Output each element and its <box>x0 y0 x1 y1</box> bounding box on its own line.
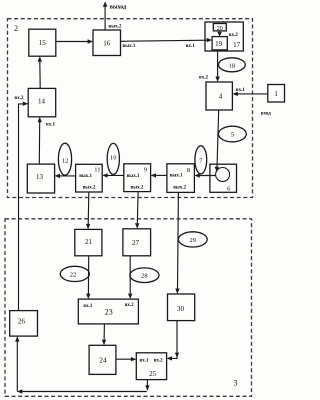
svg-text:26: 26 <box>18 318 26 326</box>
dashed box 3 <box>5 219 252 396</box>
svg-text:вых.2: вых.2 <box>83 186 96 191</box>
svg-text:вх.2: вх.2 <box>15 96 24 101</box>
svg-text:13: 13 <box>36 173 44 181</box>
wire 11 out2 to 21 <box>86 192 90 229</box>
block 16 <box>93 30 121 56</box>
svg-text:вх.2: вх.2 <box>154 358 163 363</box>
ellipse 5 <box>219 126 247 142</box>
wire 25 down to bottom bus <box>145 380 149 391</box>
block 25 <box>136 353 166 380</box>
svg-text:25: 25 <box>149 370 157 378</box>
block 21 <box>75 229 102 255</box>
svg-text:12: 12 <box>62 158 69 165</box>
wire 30 to 25 <box>167 321 180 361</box>
svg-text:2: 2 <box>14 24 18 33</box>
block 26 <box>10 311 38 337</box>
svg-text:21: 21 <box>85 238 93 246</box>
wire 8 out2 to 30 through ellipse 29 <box>175 192 179 294</box>
wire 27 to 23 through ellipse 28 <box>128 256 132 299</box>
wire 1 to 4 <box>232 88 267 96</box>
svg-text:4: 4 <box>219 92 223 100</box>
svg-text:18: 18 <box>229 62 236 69</box>
wire bottom bus to 26 <box>15 336 147 394</box>
svg-text:3: 3 <box>234 379 238 388</box>
wire 19 to 4 through ellipse 18 <box>199 50 220 82</box>
svg-text:вх.2: вх.2 <box>125 303 134 308</box>
svg-text:вх.1: вх.1 <box>46 123 55 128</box>
svg-text:вх.2: вх.2 <box>199 75 208 80</box>
wire 9 out2 to 27 <box>135 192 139 229</box>
svg-text:5: 5 <box>231 132 234 139</box>
svg-text:выход: выход <box>110 4 127 10</box>
block 17 <box>205 22 243 51</box>
svg-text:14: 14 <box>38 97 46 105</box>
svg-text:вых.2: вых.2 <box>131 186 144 191</box>
svg-text:8: 8 <box>187 167 190 174</box>
svg-text:30: 30 <box>177 305 185 313</box>
block 1 <box>268 85 285 103</box>
wire 16 to 19 <box>121 38 213 49</box>
block 14 <box>28 88 56 116</box>
wire 9 to 11 <box>102 173 124 177</box>
wire output from 16 up <box>103 1 126 30</box>
wire 23 to 24 <box>102 324 106 345</box>
ellipse 18 <box>219 58 246 72</box>
wire 13 to 14 <box>38 117 56 164</box>
svg-text:вых.1: вых.1 <box>123 44 136 49</box>
block 30 <box>168 294 195 321</box>
block 15 <box>29 29 56 56</box>
svg-text:1: 1 <box>274 90 278 98</box>
svg-text:вх.1: вх.1 <box>83 304 92 309</box>
wire 24 to 25 <box>116 357 136 361</box>
block 13 <box>27 164 54 193</box>
svg-text:вх.1: вх.1 <box>186 44 195 49</box>
wire 14 to 15 <box>38 56 42 88</box>
svg-text:22: 22 <box>70 271 77 278</box>
ellipse 7 <box>195 146 207 174</box>
wire 4 to 6 through ellipse 5 <box>215 110 219 172</box>
wire 8 to 9 <box>151 173 167 177</box>
ellipse 10 <box>107 143 119 174</box>
svg-text:17: 17 <box>233 41 241 49</box>
svg-text:вх.1: вх.1 <box>236 88 245 93</box>
svg-text:29: 29 <box>190 237 197 244</box>
label vhod <box>261 112 271 117</box>
wire 11 to 13 <box>55 174 76 178</box>
svg-text:9: 9 <box>144 166 147 173</box>
ellipse 22 <box>60 266 89 281</box>
block 8 <box>167 164 195 193</box>
svg-text:вых.1: вых.1 <box>170 174 183 179</box>
block 20 <box>213 24 226 33</box>
svg-text:24: 24 <box>99 355 107 364</box>
svg-text:19: 19 <box>215 40 223 48</box>
block 6 <box>210 164 237 192</box>
wire 15 to 16 <box>56 39 93 43</box>
wire 20 to 19 <box>217 31 221 37</box>
label vx2 in 17 <box>229 33 238 38</box>
svg-text:вых.1: вых.1 <box>79 174 92 179</box>
svg-text:вых.2: вых.2 <box>109 25 122 30</box>
block 11 <box>76 164 103 192</box>
svg-text:27: 27 <box>132 239 140 247</box>
svg-text:вых.1: вых.1 <box>127 174 140 179</box>
block 27 <box>123 229 151 256</box>
wire 21 to 23 through ellipse 22 <box>86 256 90 299</box>
svg-text:16: 16 <box>103 39 111 47</box>
block 4 <box>206 82 232 110</box>
block 24 <box>89 345 116 374</box>
block 19 <box>212 37 227 50</box>
wire 26 to 14 feedback <box>15 96 29 310</box>
block 23 <box>78 299 138 324</box>
svg-text:15: 15 <box>39 39 47 47</box>
ellipse 12 <box>58 143 71 175</box>
svg-text:10: 10 <box>110 154 117 161</box>
dashed box 2 <box>8 19 253 198</box>
svg-text:11: 11 <box>94 166 100 173</box>
wire 6 to 8 <box>194 173 216 177</box>
svg-text:вх.1: вх.1 <box>140 358 149 363</box>
ellipse 29 <box>178 232 207 247</box>
svg-text:28: 28 <box>141 273 148 280</box>
svg-text:вход: вход <box>261 112 271 117</box>
block 9 <box>124 164 151 192</box>
svg-text:вх.2: вх.2 <box>229 33 238 38</box>
ellipse 28 <box>130 268 159 283</box>
svg-text:23: 23 <box>105 307 113 316</box>
svg-text:вых.2: вых.2 <box>173 186 186 191</box>
